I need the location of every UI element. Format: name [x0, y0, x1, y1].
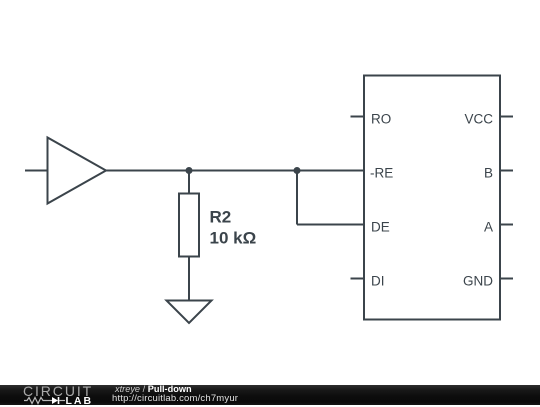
pin stub GND: [500, 278, 513, 280]
pin stub A: [500, 224, 513, 226]
svg-text:GND: GND: [463, 273, 493, 288]
svg-text:RO: RO: [371, 111, 391, 126]
pin stub VCC: [500, 116, 513, 118]
pin stub RO: [351, 116, 365, 118]
svg-text:DE: DE: [371, 219, 390, 234]
resistor R2 body: [179, 194, 199, 257]
svg-text:R2: R2: [210, 207, 232, 226]
wire input stub to buffer: [25, 170, 47, 172]
logo diode: [52, 397, 58, 404]
node junction dot at DE branch: [294, 167, 301, 174]
footer url line: [112, 393, 238, 404]
wire junction to resistor R2 top: [188, 171, 190, 194]
CircuitLab logo wordmark CIRCUIT: [23, 383, 93, 399]
svg-text:10 kΩ: 10 kΩ: [210, 228, 257, 247]
svg-text:DI: DI: [371, 273, 385, 288]
wire DE branch vertical: [296, 171, 298, 225]
ground: [167, 301, 212, 324]
svg-text:-RE: -RE: [370, 165, 393, 180]
CircuitLab logo LAB text: [66, 395, 94, 407]
logo resistor zigzag: [24, 398, 47, 404]
CircuitLab logo resistor+diode glyph and LAB: [24, 396, 94, 405]
buffer amplifier: [48, 138, 107, 204]
footer title line: xtreye / Pull-down: [115, 384, 192, 394]
svg-text:A: A: [484, 219, 493, 234]
logo wire: [47, 400, 52, 402]
node junction dot at R2: [186, 167, 193, 174]
IC transceiver box: [364, 76, 500, 320]
wire resistor R2 bottom to ground: [188, 257, 190, 301]
wire buffer output to IC -RE pin: [106, 170, 364, 172]
svg-text:B: B: [484, 165, 493, 180]
pin stub B: [500, 170, 513, 172]
svg-text:VCC: VCC: [464, 111, 493, 126]
wire DE branch horizontal to IC DE pin: [297, 224, 364, 226]
pin stub DI: [351, 278, 365, 280]
